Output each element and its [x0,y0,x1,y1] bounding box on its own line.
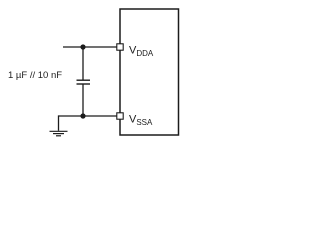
pin VSSA (square) [117,113,123,119]
pin VDDA (square) [117,44,123,50]
IC U1 (device outline) [120,9,179,135]
node junction (top, VDDA net) [80,44,85,49]
svg-text:VDDA: VDDA [129,45,154,59]
ground [50,131,68,136]
wire (ground stub) [58,115,60,130]
wire (capacitor top lead) [82,47,84,80]
wire (bottom: ground to VSSA pin) [59,115,118,117]
svg-text:1 µF // 10 nF: 1 µF // 10 nF [8,70,62,81]
wire (top: capacitor node to VDDA pin) [63,46,117,48]
svg-text:VSSA: VSSA [129,114,153,128]
node junction (bottom, VSSA net) [80,113,85,118]
capacitor C1 (1 µF // 10 nF) [77,80,91,84]
wire (capacitor bottom lead) [82,84,84,116]
